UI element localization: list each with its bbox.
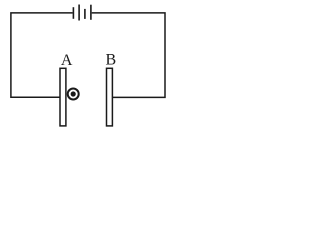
- svg-text:A: A: [61, 52, 73, 69]
- svg-text:B: B: [105, 52, 116, 69]
